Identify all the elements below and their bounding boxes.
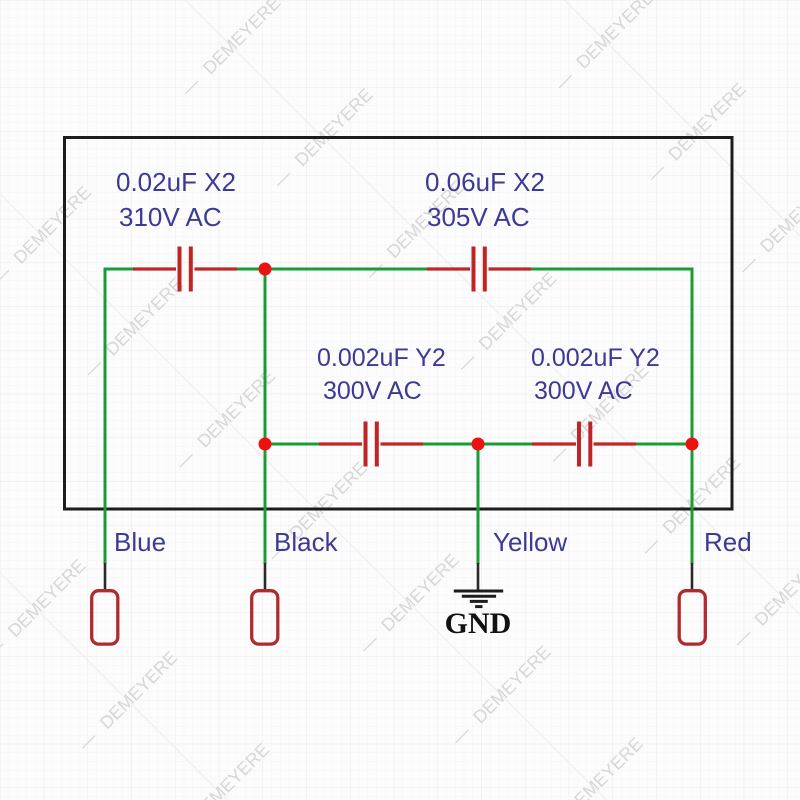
svg-text:Black: Black bbox=[274, 527, 339, 557]
svg-text:310V AC: 310V AC bbox=[119, 202, 222, 232]
label C4 value bbox=[531, 344, 660, 405]
wire: branch at node A down to Black terminal bbox=[264, 269, 267, 564]
svg-text:Red: Red bbox=[704, 527, 752, 557]
capacitor C1 0.02uF X2 bbox=[133, 247, 237, 292]
node D junction bbox=[686, 438, 699, 451]
node A junction bbox=[259, 263, 272, 276]
node B junction bbox=[259, 438, 272, 451]
label C1 value bbox=[116, 167, 236, 232]
svg-text:0.06uF X2: 0.06uF X2 bbox=[425, 167, 545, 197]
terminal Black bbox=[252, 591, 278, 644]
svg-text:Yellow: Yellow bbox=[493, 527, 567, 557]
wire: black lead Black bbox=[264, 563, 267, 590]
node C junction bbox=[472, 438, 485, 451]
wire: middle bus between C3 and C4 bbox=[423, 443, 532, 446]
wire: middle bus node B to C3 bbox=[265, 443, 319, 446]
capacitor C3 0.002uF Y2 bbox=[319, 422, 423, 467]
label C2 value bbox=[425, 167, 545, 232]
wire: top bus right segment + Red branch vertical bbox=[531, 269, 692, 564]
ground symbol bbox=[454, 591, 503, 607]
svg-text:305V AC: 305V AC bbox=[427, 202, 530, 232]
capacitor C2 0.06uF X2 bbox=[427, 247, 531, 292]
terminal Red bbox=[679, 591, 705, 644]
wire: Blue branch vertical + top bus left segment bbox=[105, 269, 133, 564]
svg-text:Blue: Blue bbox=[114, 527, 166, 557]
wire: branch at node C down to GND bbox=[477, 444, 480, 564]
terminal Blue bbox=[92, 591, 118, 644]
wire: middle bus C4 to node D bbox=[636, 443, 692, 446]
svg-text:300V AC: 300V AC bbox=[534, 377, 633, 405]
svg-text:GND: GND bbox=[445, 607, 512, 640]
capacitor C4 0.002uF Y2 bbox=[532, 422, 636, 467]
wire: black lead Red bbox=[691, 563, 694, 590]
svg-text:0.002uF Y2: 0.002uF Y2 bbox=[531, 344, 660, 372]
wire: black lead Yellow/GND bbox=[477, 563, 480, 591]
svg-text:0.02uF X2: 0.02uF X2 bbox=[116, 167, 236, 197]
svg-text:0.002uF Y2: 0.002uF Y2 bbox=[317, 344, 446, 372]
label C3 value bbox=[317, 344, 446, 405]
svg-text:300V AC: 300V AC bbox=[323, 377, 422, 405]
wire: top bus between C1 and C2 bbox=[237, 268, 427, 271]
wire: black lead Blue bbox=[104, 563, 107, 590]
component outline box bbox=[65, 138, 733, 510]
